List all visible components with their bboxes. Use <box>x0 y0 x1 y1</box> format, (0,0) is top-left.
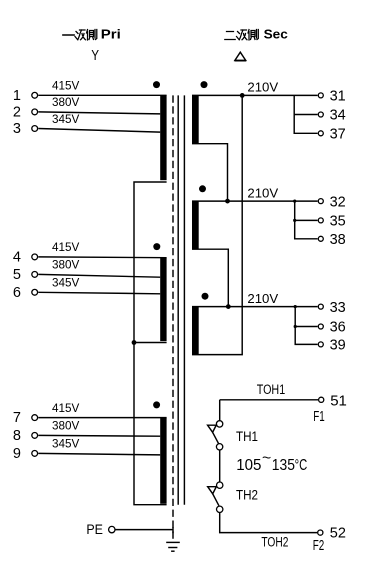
svg-text:415V: 415V <box>52 80 80 93</box>
svg-text:38: 38 <box>330 232 346 248</box>
svg-text:~: ~ <box>262 449 271 466</box>
svg-text:PE: PE <box>86 521 103 537</box>
svg-text:36: 36 <box>330 320 346 336</box>
svg-text:37: 37 <box>330 127 346 143</box>
svg-text:39: 39 <box>330 338 346 354</box>
svg-text:Y: Y <box>91 48 99 64</box>
svg-text:2: 2 <box>13 104 21 120</box>
svg-text:210V: 210V <box>247 79 278 94</box>
svg-text:380V: 380V <box>52 420 80 433</box>
svg-text:34: 34 <box>330 108 346 124</box>
svg-text:TH1: TH1 <box>236 428 258 444</box>
svg-text:9: 9 <box>13 446 21 462</box>
svg-text:345V: 345V <box>52 113 80 126</box>
svg-text:105: 105 <box>236 457 261 474</box>
svg-text:7: 7 <box>13 410 21 426</box>
svg-text:51: 51 <box>330 393 347 410</box>
svg-text:210V: 210V <box>247 186 278 201</box>
svg-text:415V: 415V <box>52 241 80 254</box>
svg-text:33: 33 <box>330 300 346 316</box>
svg-text:1: 1 <box>13 88 21 104</box>
svg-text:TOH2: TOH2 <box>261 535 288 550</box>
svg-text:F1: F1 <box>313 408 325 425</box>
svg-text:4: 4 <box>13 249 21 265</box>
svg-text:31: 31 <box>330 89 346 105</box>
svg-text:35: 35 <box>330 214 346 230</box>
svg-text:380V: 380V <box>52 259 80 272</box>
svg-text:5: 5 <box>13 267 21 283</box>
svg-text:Pri: Pri <box>101 27 121 42</box>
svg-text:210V: 210V <box>247 291 278 306</box>
svg-text:345V: 345V <box>52 438 80 451</box>
svg-text:TOH1: TOH1 <box>257 382 286 397</box>
svg-text:32: 32 <box>330 194 346 210</box>
svg-text:F2: F2 <box>313 537 325 554</box>
svg-text:52: 52 <box>330 526 346 542</box>
svg-text:380V: 380V <box>52 96 80 109</box>
svg-text:Sec: Sec <box>264 27 288 42</box>
svg-text:TH2: TH2 <box>236 487 258 503</box>
svg-text:°C: °C <box>295 457 308 474</box>
svg-text:135: 135 <box>272 457 295 474</box>
svg-text:345V: 345V <box>52 277 80 290</box>
svg-text:6: 6 <box>13 285 21 301</box>
svg-text:8: 8 <box>13 428 21 444</box>
svg-text:3: 3 <box>13 121 21 137</box>
svg-text:415V: 415V <box>52 402 80 415</box>
